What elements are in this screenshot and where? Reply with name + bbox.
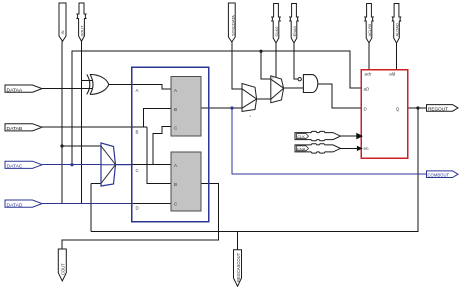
svg-text:B: B bbox=[174, 182, 177, 187]
svg-text:DATAC: DATAC bbox=[7, 164, 23, 170]
svg-text:ENA: ENA bbox=[297, 147, 305, 152]
svg-text:COUT: COUT bbox=[61, 263, 66, 275]
svg-text:ENA0: ENA0 bbox=[292, 25, 297, 36]
svg-text:DATAA: DATAA bbox=[7, 87, 23, 93]
svg-text:DATAD: DATAD bbox=[7, 202, 23, 208]
svg-text:ALOAD: ALOAD bbox=[395, 23, 400, 37]
svg-text:ACLR0: ACLR0 bbox=[367, 23, 372, 37]
svg-text:REGCASCOUT: REGCASCOUT bbox=[236, 252, 241, 282]
svg-text:IN: IN bbox=[60, 30, 65, 34]
svg-text:A: A bbox=[174, 88, 177, 93]
svg-text:CLK0: CLK0 bbox=[274, 26, 279, 37]
svg-text:B: B bbox=[136, 130, 139, 135]
svg-text:CLK: CLK bbox=[297, 134, 305, 139]
svg-text:en: en bbox=[364, 146, 370, 151]
svg-text:0: 0 bbox=[272, 76, 274, 80]
svg-text:REGOUT: REGOUT bbox=[428, 106, 448, 111]
svg-text:Q: Q bbox=[396, 107, 400, 112]
svg-text:SYNCDATA: SYNCDATA bbox=[230, 15, 235, 36]
svg-text:A: A bbox=[136, 88, 139, 93]
svg-text:A: A bbox=[174, 163, 177, 168]
svg-text:B: B bbox=[174, 107, 177, 112]
svg-text:COMBOUT: COMBOUT bbox=[428, 173, 450, 178]
svg-text:aD: aD bbox=[364, 86, 371, 91]
svg-text:SOUT: SOUT bbox=[80, 25, 85, 37]
svg-text:ald: ald bbox=[389, 72, 396, 77]
svg-text:aclr: aclr bbox=[365, 72, 373, 77]
svg-text:DATAB: DATAB bbox=[7, 126, 23, 132]
